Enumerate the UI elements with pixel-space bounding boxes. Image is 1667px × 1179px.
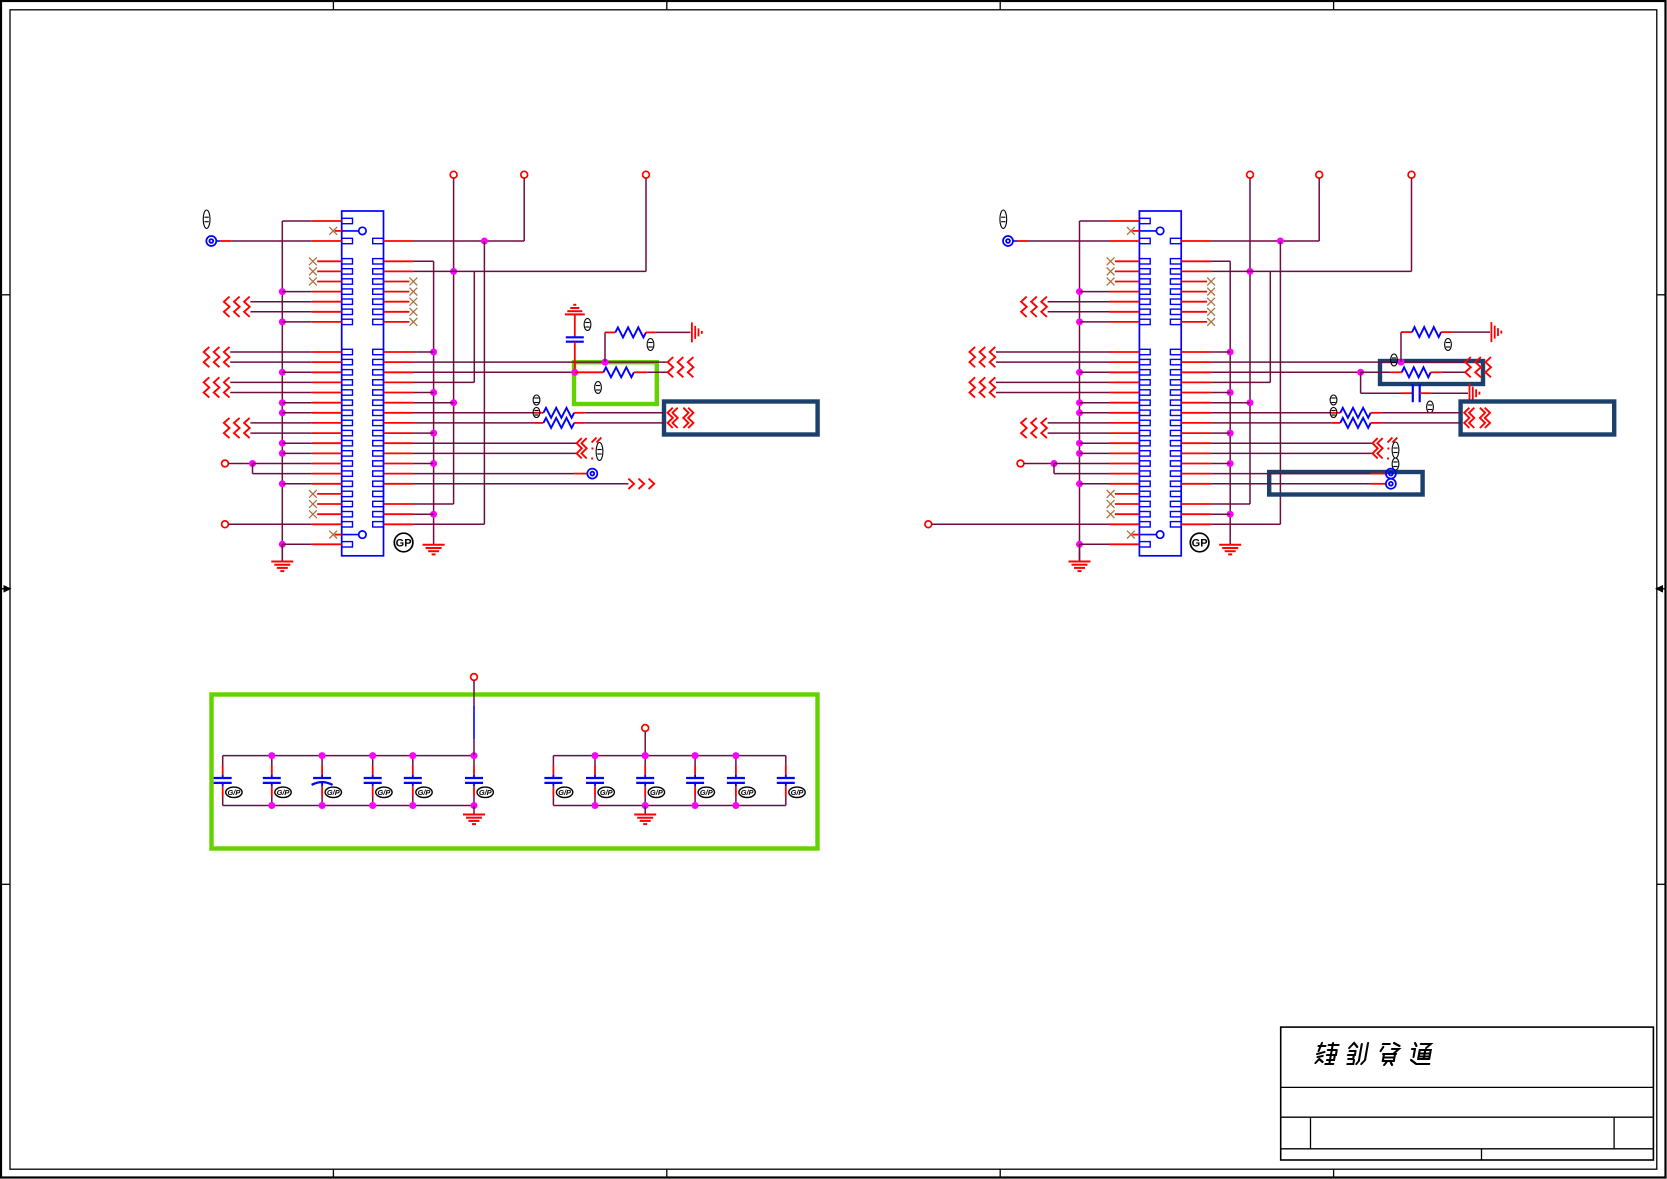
junction dot row362 pullup [602, 359, 609, 366]
wire pin row463 to vA [384, 463, 434, 465]
power circle P4 top [1247, 171, 1254, 178]
no-connect X right pin row 281 (J2) [1181, 278, 1215, 286]
wire bus to pin row483 (J2) [1080, 483, 1140, 485]
wire pin row453 to chevrons [384, 452, 577, 454]
wire chevron to pin row352 (J1) [230, 351, 342, 353]
power circle P6 top [1408, 171, 1415, 178]
wire pin row372 to R2 [384, 371, 575, 373]
label CB [584, 319, 591, 331]
power circle P1 top [450, 171, 457, 178]
no-connect X left pin row 514 (J2) [1107, 510, 1140, 518]
label R8 [1330, 408, 1337, 418]
off-page chevrons rows 422-433 (J1) [224, 418, 250, 438]
label G/P C23 [598, 787, 614, 797]
company logotype (Chinese) [1315, 1043, 1433, 1065]
svg-text:GP: GP [396, 538, 412, 550]
junction dots bank2 rails [592, 752, 740, 809]
wire pin row271 to P3 [384, 178, 647, 271]
wire chevron to pin row362 (J2) [996, 361, 1139, 363]
wire bus to pin row412 (J2) [1080, 412, 1140, 414]
wire pin row392 to vA' (J2) [1181, 392, 1230, 394]
input terminal circle row463 (J2) [1017, 460, 1024, 467]
power circle P2 top [521, 171, 528, 178]
wire pin row473 to bullseye [384, 469, 598, 479]
off-page chevrons rows 352-362 (J1) [204, 347, 230, 367]
no-connect X left pin row 281 (J1) [309, 278, 342, 286]
wire chevron to pin row382 (J2) [996, 381, 1139, 383]
junction dot row241 v2' [1277, 238, 1284, 245]
ground GND bank1 [463, 806, 485, 825]
no-connect X left pin row 493 (J1) [309, 490, 342, 498]
power circle bank1 [471, 674, 478, 681]
wire bus to pin row402 (J2) [1080, 402, 1140, 404]
wire v2' to pin row524 (J2) [1181, 523, 1280, 525]
bidirectional chevrons in box B4 [1464, 408, 1490, 428]
label G/P C26 [739, 787, 755, 797]
no-connect X at bottom circle pin (J2) [1127, 531, 1139, 539]
wire from bullseye to pin row241 (J2) [1003, 236, 1139, 246]
no-connect X left pin row 493 (J2) [1107, 490, 1140, 498]
cap bank1 bottom rail [223, 805, 474, 807]
wire pin row402 to v1' (J2) [1181, 402, 1250, 404]
border mid-left arrow [1, 585, 12, 593]
wire chevron to pin row301 (J2) [1048, 301, 1140, 303]
junction dot row372 cap [571, 369, 578, 376]
wire bus to pin row443 (J2) [1080, 442, 1140, 444]
no-connect X left pin row 261 (J2) [1107, 257, 1140, 265]
capacitor C15 bank1 [364, 756, 382, 806]
wire pin row372 to R6 (J2) [1181, 371, 1360, 373]
wire branch to pin row473 (J2) [1054, 464, 1139, 474]
wire bus to bottom pin (J2) [1080, 543, 1140, 545]
svg-text:G/P: G/P [650, 788, 663, 797]
junction dots bank1 rails [268, 752, 477, 809]
off-page chevrons rows 422-433 (J2) [1021, 418, 1047, 438]
off-page chevrons rows 382-392 (J1) [204, 377, 230, 397]
wire v2' vertical [1279, 241, 1281, 524]
capacitor C23 bank2 [586, 756, 604, 806]
wire circle463 to junction (J2) [1024, 463, 1054, 465]
power circle P5 top [1316, 171, 1323, 178]
resistor R8 row422 [1181, 418, 1460, 428]
junction dot v1 row271 [450, 268, 457, 275]
junction dots on J2 left bus [1076, 288, 1083, 548]
no-connect X at bottom circle pin (J1) [329, 531, 341, 539]
capacitor C26 bank2 [727, 756, 745, 806]
cap bank2 top rail [553, 755, 785, 757]
wire chevron to pin row392 (J2) [996, 392, 1139, 394]
junction dots on vA [430, 349, 437, 518]
wire chevron to pin row352 (J2) [996, 351, 1139, 353]
wire bus to pin row483 (J1) [282, 483, 341, 485]
green highlight box around cap banks [212, 695, 818, 849]
label R1 [647, 339, 654, 351]
connector J2 (right docking connector) [1139, 211, 1181, 556]
no-connect X right pin row 291 (J1) [384, 288, 418, 296]
no-connect X right pin row 311 (J2) [1181, 308, 1215, 316]
svg-text:G/P: G/P [558, 788, 571, 797]
label G/P C13 [275, 787, 291, 797]
wire circle524 to pin (J2) [932, 523, 1140, 525]
wire pin row352 to vA' (J2) [1181, 351, 1230, 353]
resistor R1 pull-up [605, 327, 691, 362]
chassis ground right of R5 [1491, 322, 1501, 342]
wire pin row241 to P2 [384, 178, 525, 241]
no-connect X left pin row 514 (J1) [309, 510, 342, 518]
label R7 [1330, 395, 1337, 405]
wire pin row241 to P5 (J2) [1181, 178, 1319, 241]
wire bus to pin row321 (J2) [1080, 321, 1140, 323]
svg-text:G/P: G/P [327, 788, 340, 797]
wire v2 to pin row524 [384, 523, 485, 525]
label G/P C25 [698, 787, 714, 797]
label R3 [533, 395, 540, 405]
wire pin row443 to chevrons (J2) [1181, 442, 1372, 444]
chassis ground right of C1 [1470, 383, 1480, 403]
wire pin row443 to chevrons [384, 442, 577, 444]
no-connect X left pin row 261 (J1) [309, 257, 342, 265]
junction dots on vA' [1227, 349, 1234, 518]
label G/P C14 [325, 787, 341, 797]
off-page chevrons rows 301-311 (J2) [1021, 297, 1047, 317]
label G/P C22 [556, 787, 572, 797]
no-connect X right pin row 301 (J1) [384, 298, 418, 306]
junction dot v1' row402 [1247, 399, 1254, 406]
chevrons rows 362-372 right [668, 357, 694, 377]
designator label near bullseye (J2) [1000, 210, 1007, 228]
wire pin row271 to P6 (J2) [1181, 178, 1411, 271]
ground GND below J1 left bus [271, 544, 293, 571]
wire pin row463 to vA' (J2) [1181, 463, 1230, 465]
navy highlight box B4 [1461, 402, 1615, 435]
off-page chevrons rows 301-311 (J1) [224, 297, 250, 317]
label chevrons 443 [596, 443, 603, 461]
wire pin row352 to vA [384, 351, 434, 353]
wire pin row433 to vA [384, 432, 434, 434]
wire branch to pin row473 (J1) [253, 464, 342, 474]
svg-text:G/P: G/P [228, 788, 241, 797]
svg-text:G/P: G/P [418, 788, 431, 797]
wire v1' bus from P4 [1249, 178, 1251, 504]
label R2 [595, 382, 602, 394]
wire junction to pin row463 (J2) [1054, 463, 1139, 465]
svg-text:GP: GP [1192, 538, 1208, 550]
wire circle524 to pin (J1) [228, 523, 341, 525]
wire chevron to pin row311 (J2) [1048, 311, 1140, 313]
wire bus to bottom pin (J1) [282, 543, 341, 545]
wire chevron to pin row422 (J1) [250, 422, 341, 424]
wire circle463 to junction (J1) [228, 463, 252, 465]
wire chevron to pin row301 (J1) [250, 301, 341, 303]
capacitor C12 bank1 [214, 756, 232, 806]
wire pin row514 to vA' (J2) [1181, 513, 1230, 515]
wire power feed bank1 [473, 680, 475, 755]
wire pin row382 to v1b [384, 381, 475, 383]
no-connect X left pin row 504 (J2) [1107, 500, 1140, 508]
input terminal circle row463 (J1) [222, 460, 229, 467]
wire pin row402 to v1 [384, 402, 454, 404]
wire pin row362 to chevrons [384, 361, 668, 363]
junction dot row362 pullup (J2) [1398, 359, 1405, 366]
wire bus to pin row443 (J1) [282, 442, 341, 444]
wire bus to pin row453 (J2) [1080, 452, 1140, 454]
label J2 GP marker [1190, 533, 1209, 552]
label G/P C27 [789, 787, 805, 797]
resistor R6 in box B2 [1361, 367, 1465, 377]
wire pin row514 to vA [384, 513, 434, 515]
capacitor C14 bank1 [312, 756, 333, 806]
no-connect X right pin row 321 (J1) [384, 318, 418, 326]
input terminal circle row524 (J2) [925, 521, 932, 528]
chevrons rows 443-453 [577, 438, 602, 460]
earth symbol above CB [565, 305, 585, 315]
no-connect X left pin row 271 (J2) [1107, 268, 1140, 276]
wire bus to pin row372 (J2) [1080, 371, 1140, 373]
no-connect X left pin row 504 (J1) [309, 500, 342, 508]
power circle P3 top [643, 171, 650, 178]
wire pin row362 to chevrons (J2) [1181, 361, 1465, 363]
wire bus to pin row453 (J1) [282, 452, 341, 454]
junction dot row241 v2 [481, 238, 488, 245]
junction dot v1' row271 [1247, 268, 1254, 275]
wire pin row382 to v1b' (J2) [1181, 381, 1270, 383]
resistor R7 row412 [1181, 408, 1460, 418]
cap bank2 bottom rail [553, 805, 785, 807]
cap bank1 top rail [223, 755, 474, 757]
junction dot v1 row402 [450, 399, 457, 406]
power circle bank2 [642, 725, 649, 732]
svg-text:G/P: G/P [479, 788, 492, 797]
capacitor C13 bank1 [263, 756, 281, 806]
capacitor C27 bank2 [777, 756, 795, 806]
resistor R3 row412 [384, 408, 665, 418]
navy highlight box B1 [664, 402, 818, 435]
capacitor C25 bank2 [686, 756, 704, 806]
svg-text:G/P: G/P [741, 788, 754, 797]
capacitor C22 bank2 [544, 756, 562, 806]
label G/P C15 [376, 787, 392, 797]
wire pin row261 to ground bus vA [384, 261, 434, 544]
no-connect X right pin row 301 (J2) [1181, 298, 1215, 306]
capacitor CB [566, 314, 584, 372]
wire chevron to pin row382 (J1) [230, 381, 342, 383]
designator label near bullseye (J1) [203, 210, 210, 228]
wire pin row504 to v1' (J2) [1181, 503, 1250, 505]
wire pin row504 to v1 [384, 503, 454, 505]
wire from bullseye to pin row241 (J1) [206, 236, 341, 246]
wire J pin A1 to bus (J2) [1080, 220, 1140, 222]
wire J pin A1 to bus (J1) [282, 220, 341, 222]
chevrons rows 443-453 (J2) [1373, 438, 1398, 460]
label G/P C12 [226, 787, 242, 797]
label G/P C17 [477, 787, 493, 797]
wire junction to pin row463 (J1) [253, 463, 342, 465]
resistor R5 pull-up [1401, 327, 1490, 362]
wire v1 bus from P1 [453, 178, 455, 504]
ground GND below J2 left bus [1069, 544, 1091, 571]
label G/P C24 [648, 787, 664, 797]
label R4 [533, 408, 540, 418]
junction dot row463 (J1) [249, 460, 256, 467]
wire bus to pin row412 (J1) [282, 412, 341, 414]
no-connect X right pin row 281 (J1) [384, 278, 418, 286]
no-connect X at top circle pin (J2) [1127, 227, 1139, 235]
wire pin row433 to vA' (J2) [1181, 432, 1230, 434]
wire chevron to pin row311 (J1) [250, 311, 341, 313]
wire chevron to pin row433 (J2) [1048, 432, 1140, 434]
label chevrons 443 (J2) [1392, 442, 1399, 470]
off-page chevrons rows 352-362 (J2) [970, 347, 996, 367]
wire pin row392 to vA [384, 392, 434, 394]
input terminal circle row524 (J1) [222, 521, 229, 528]
junction dots on J1 left bus [279, 288, 286, 548]
wire chevron to pin row433 (J1) [250, 432, 341, 434]
no-connect X right pin row 311 (J1) [384, 308, 418, 316]
navy highlight box B2 [1380, 361, 1483, 384]
svg-text:G/P: G/P [378, 788, 391, 797]
bidirectional chevrons in box B1 [668, 408, 694, 428]
label J1 GP marker [394, 533, 413, 552]
wire bus to pin row291 (J2) [1080, 291, 1140, 293]
no-connect X right pin row 291 (J2) [1181, 288, 1215, 296]
wire pin row483 to bullseye (J2) [1181, 479, 1396, 489]
wire pin row483 to out-chevrons [384, 483, 629, 485]
wire pin row473 to bullseye (J2) [1181, 469, 1396, 479]
junction dot row463 (J2) [1051, 460, 1058, 467]
title block frame [1281, 1027, 1654, 1160]
wire v1b vertical [473, 271, 475, 382]
out chevrons row483 [628, 479, 654, 489]
wire left power bus of J1 [281, 221, 283, 561]
label G/P C16 [416, 787, 432, 797]
off-page chevrons rows 382-392 (J2) [970, 377, 996, 397]
no-connect X left pin row 281 (J2) [1107, 278, 1140, 286]
junction dot row372 cap (J2) [1357, 369, 1364, 376]
svg-text:G/P: G/P [600, 788, 613, 797]
wire bus to pin row372 (J1) [282, 371, 341, 373]
border mid-right arrow [1655, 585, 1666, 593]
wire chevron to pin row362 (J1) [230, 361, 342, 363]
wire v2 vertical [483, 241, 485, 524]
navy highlight box B3 [1269, 472, 1422, 495]
svg-text:G/P: G/P [791, 788, 804, 797]
wire bus to pin row321 (J1) [282, 321, 341, 323]
wire chevron to pin row392 (J1) [230, 392, 342, 394]
label C1 [1427, 401, 1434, 413]
resistor R2 in green box [575, 367, 668, 377]
wire bus to pin row291 (J1) [282, 291, 341, 293]
chevrons rows 362-372 (J2) [1465, 357, 1491, 377]
ground GND bank2 [634, 806, 656, 825]
ground GND below vA [423, 545, 445, 555]
connector J1 (left docking connector) [342, 211, 384, 556]
wire power feed bank2 [642, 731, 649, 759]
no-connect X left pin row 271 (J1) [309, 268, 342, 276]
svg-text:G/P: G/P [277, 788, 290, 797]
wire v1b' vertical [1269, 271, 1271, 382]
capacitor C17 bank1 [465, 756, 483, 806]
wire chevron to pin row422 (J2) [1048, 422, 1140, 424]
wire pin row453 to chevrons (J2) [1181, 452, 1372, 454]
chassis ground right of R1 [692, 322, 702, 342]
label R6 [1391, 354, 1398, 366]
wire left power bus of J2 [1079, 221, 1081, 561]
green highlight box around R2 [574, 362, 657, 404]
svg-text:G/P: G/P [700, 788, 713, 797]
ground GND below vA' [1219, 545, 1241, 555]
wire bus to pin row402 (J1) [282, 402, 341, 404]
wire pin row261 to vA' (J2) [1181, 261, 1230, 544]
label R5 [1445, 339, 1452, 351]
no-connect X at top circle pin (J1) [329, 227, 341, 235]
resistor R4 row422 [384, 418, 665, 428]
capacitor C16 bank1 [404, 756, 422, 806]
capacitor C24 bank2 [636, 756, 654, 806]
no-connect X right pin row 321 (J2) [1181, 318, 1215, 326]
capacitor C1 branch [1361, 372, 1468, 402]
